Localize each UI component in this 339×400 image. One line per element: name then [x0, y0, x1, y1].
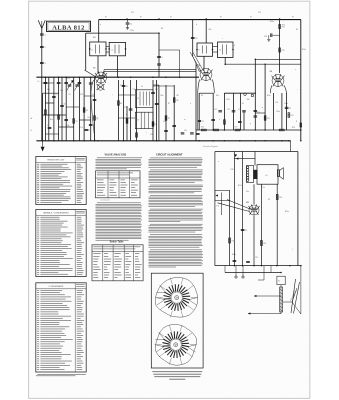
svg-text:C15: C15 — [125, 86, 128, 88]
svg-text:L6: L6 — [137, 98, 139, 100]
svg-text:C6: C6 — [64, 104, 66, 106]
svg-text:VALVE ANALYSIS: VALVE ANALYSIS — [105, 153, 127, 157]
svg-text:R18a: R18a — [232, 254, 236, 256]
svg-text:CONDENSERS: CONDENSERS — [49, 286, 64, 288]
svg-text:R6: R6 — [161, 28, 163, 30]
svg-text:S1: S1 — [278, 281, 280, 283]
svg-text:C21: C21 — [201, 121, 204, 123]
svg-text:CIRCUIT ALIGNMENT: CIRCUIT ALIGNMENT — [156, 153, 183, 157]
svg-text:C30: C30 — [264, 36, 267, 38]
svg-text:R7: R7 — [168, 103, 170, 105]
svg-text:b: b — [196, 24, 197, 26]
svg-text:C27a: C27a — [284, 103, 288, 105]
svg-text:R13: R13 — [292, 127, 295, 129]
svg-text:R17: R17 — [235, 127, 238, 129]
svg-text:R16: R16 — [201, 127, 204, 129]
svg-text:C18: C18 — [163, 121, 166, 123]
svg-text:o: o — [219, 119, 220, 121]
svg-text:L4: L4 — [91, 50, 93, 52]
svg-text:HT: HT — [220, 17, 222, 19]
svg-text:q: q — [262, 107, 263, 109]
svg-text:C7a: C7a — [80, 127, 83, 129]
svg-text:R4: R4 — [120, 103, 122, 105]
svg-text:HT: HT — [250, 17, 252, 19]
svg-text:R1: R1 — [76, 121, 78, 123]
svg-text:S2b: S2b — [247, 99, 250, 101]
svg-text:L7: L7 — [199, 50, 201, 52]
svg-text:C23: C23 — [227, 109, 230, 111]
svg-text:AERIALS / CONDENSERS: AERIALS / CONDENSERS — [43, 212, 69, 215]
svg-text:W: W — [31, 118, 33, 120]
svg-text:R1a: R1a — [50, 119, 53, 121]
svg-text:HT: HT — [140, 17, 142, 19]
svg-text:R19: R19 — [263, 243, 266, 245]
svg-text:R17a: R17a — [238, 185, 242, 187]
svg-text:L1: L1 — [44, 47, 46, 49]
svg-text:RESISTORS LIST: RESISTORS LIST — [48, 160, 66, 162]
svg-text:C29: C29 — [244, 230, 247, 232]
svg-text:C1: C1 — [44, 35, 46, 37]
svg-text:C12: C12 — [258, 12, 261, 14]
svg-text:( Continued ): ( Continued ) — [100, 199, 110, 202]
svg-text:HT: HT — [296, 29, 298, 31]
svg-text:L3: L3 — [92, 94, 94, 96]
svg-text:R11a: R11a — [267, 95, 271, 97]
svg-text:ALBA 812: ALBA 812 — [52, 24, 85, 31]
svg-text:S2a: S2a — [216, 95, 219, 97]
svg-text:C26: C26 — [275, 102, 278, 104]
svg-text:SP: SP — [268, 199, 270, 201]
svg-text:R20a: R20a — [285, 211, 289, 213]
svg-text:R7: R7 — [168, 118, 170, 120]
svg-text:R8: R8 — [177, 95, 179, 97]
svg-text:a: a — [100, 24, 101, 26]
svg-text:e: e — [218, 161, 219, 163]
svg-text:S2: S2 — [242, 103, 244, 105]
svg-text:C9: C9 — [161, 57, 163, 59]
svg-text:h: h — [74, 83, 75, 85]
svg-text:L5: L5 — [111, 50, 113, 52]
svg-text:L8: L8 — [219, 50, 221, 52]
svg-text:C26a: C26a — [276, 111, 280, 113]
svg-text:T1a: T1a — [262, 187, 265, 189]
svg-text:C10a: C10a — [130, 30, 134, 32]
svg-text:R9: R9 — [201, 95, 203, 97]
svg-text:L6: L6 — [141, 86, 143, 88]
svg-text:R2a: R2a — [88, 117, 91, 119]
svg-text:R18: R18 — [232, 241, 235, 243]
svg-text:HT: HT — [170, 17, 172, 19]
svg-text:p: p — [250, 123, 251, 125]
svg-text:C7: C7 — [88, 130, 90, 132]
svg-text:R11: R11 — [267, 118, 270, 120]
svg-text:R15a: R15a — [302, 49, 306, 51]
svg-text:C20: C20 — [184, 130, 187, 132]
svg-text:R8: R8 — [176, 100, 178, 102]
svg-text:C31: C31 — [255, 257, 258, 259]
svg-text:d: d — [234, 45, 235, 47]
svg-text:VC1: VC1 — [67, 78, 70, 80]
svg-text:VC2: VC2 — [80, 94, 83, 96]
svg-text:HT: HT — [292, 17, 294, 19]
svg-text:C23a: C23a — [226, 99, 230, 101]
svg-text:C11: C11 — [131, 12, 134, 14]
svg-text:C2: C2 — [44, 63, 46, 65]
svg-text:L9: L9 — [137, 120, 139, 122]
svg-text:C16: C16 — [124, 107, 127, 109]
svg-text:R2: R2 — [86, 110, 88, 112]
svg-text:R20: R20 — [279, 197, 282, 199]
svg-text:C28: C28 — [231, 169, 234, 171]
svg-text:R15: R15 — [282, 50, 285, 52]
svg-text:n: n — [190, 103, 191, 105]
svg-text:C18: C18 — [194, 38, 197, 40]
svg-text:C3: C3 — [47, 83, 49, 85]
svg-text:g: g — [56, 94, 57, 96]
svg-text:L2: L2 — [38, 81, 40, 83]
svg-text:C4: C4 — [60, 83, 62, 85]
svg-text:R14: R14 — [282, 27, 285, 29]
svg-text:C10: C10 — [129, 24, 132, 26]
svg-text:V4a: V4a — [246, 191, 249, 193]
svg-text:R14a: R14a — [270, 21, 274, 23]
svg-text:Printed in England: Printed in England — [203, 145, 219, 148]
svg-text:C22: C22 — [214, 109, 217, 111]
svg-text:P.U.: P.U. — [217, 206, 221, 208]
svg-text:R6a: R6a — [161, 95, 164, 97]
svg-text:Switch Table: Switch Table — [110, 241, 125, 244]
svg-text:C4a: C4a — [60, 90, 63, 92]
svg-text:HT: HT — [105, 17, 107, 19]
svg-text:C27: C27 — [288, 108, 291, 110]
svg-text:R13: R13 — [291, 115, 294, 117]
svg-text:R9a: R9a — [209, 29, 212, 31]
svg-text:C24: C24 — [238, 109, 241, 111]
svg-text:C19: C19 — [150, 134, 153, 136]
